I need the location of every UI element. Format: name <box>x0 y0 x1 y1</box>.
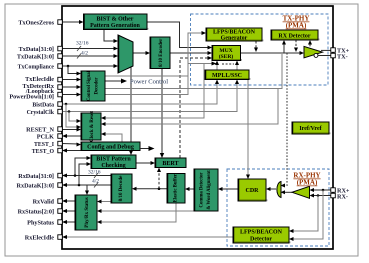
wire MPLL up to MUX SER in1 <box>215 61 219 71</box>
svg-text:Power Control: Power Control <box>130 79 168 86</box>
wire BIST checking to BERT <box>136 161 155 165</box>
wire comma det to elastic buffer <box>185 187 194 191</box>
port RX+ <box>331 188 336 193</box>
port TEST_O <box>58 148 63 153</box>
svg-text:RxDataK[3:0]: RxDataK[3:0] <box>17 182 54 189</box>
wire TxDataK to mux <box>62 54 118 58</box>
wire mux out to encoder <box>133 51 150 55</box>
block BERT <box>155 158 186 168</box>
svg-text:Decoder: Decoder <box>95 77 100 95</box>
wire TX line up to RX detector <box>282 40 286 53</box>
block LFPS/BEACON Detector <box>233 227 291 243</box>
RX amplifier triangle <box>292 186 310 198</box>
block 8/10 Decode <box>111 174 132 203</box>
wire TxCompliance to mux <box>62 64 118 68</box>
wire BIST out to MUX(SER) <box>147 22 212 50</box>
wire dashed LFPS gen down <box>254 41 258 52</box>
wire elastic buffer down to status <box>97 203 176 224</box>
PHY main box <box>62 6 333 249</box>
port RX- <box>331 193 336 198</box>
wire CrystalClk long to MPLL <box>62 80 239 113</box>
wire decoder out y88 long <box>105 54 282 89</box>
wire driver top to RX detector <box>308 40 312 46</box>
block BIST Pattern Checking <box>91 155 136 169</box>
svg-text:Clock & Reset: Clock & Reset <box>90 111 95 142</box>
svg-text:TxOnesZeros: TxOnesZeros <box>18 19 54 26</box>
wire RxDataK out <box>62 183 111 187</box>
port RxData <box>58 173 63 178</box>
svg-text:Iref/Vref: Iref/Vref <box>299 126 322 132</box>
svg-text:Comma Detector: Comma Detector <box>200 172 205 208</box>
wire encoder tap down to BERT <box>160 69 164 159</box>
svg-text:BERT: BERT <box>162 161 178 167</box>
wire RxDataK branch down to status <box>85 185 89 195</box>
port TxElecIdle <box>58 77 63 82</box>
wire clockreset right feedback 1 <box>101 64 204 121</box>
svg-text:RX Detector: RX Detector <box>278 33 310 39</box>
port TxDataK <box>58 54 63 59</box>
block MUX (SER) <box>212 46 242 61</box>
wire TxCompliance branch to decoder <box>68 66 81 76</box>
svg-text:4/2: 4/2 <box>81 51 88 57</box>
wire decoder out y76 <box>105 75 188 77</box>
svg-text:& Word Alignment: & Word Alignment <box>207 170 212 210</box>
port CrystalClk <box>58 109 63 114</box>
block LFPS/BEACON Generator <box>206 28 264 42</box>
wire PhyStatus out <box>62 220 75 224</box>
svg-text:Phy/Rx Status: Phy/Rx Status <box>85 197 90 227</box>
port TxData <box>58 46 63 51</box>
svg-text:CDR: CDR <box>246 188 260 194</box>
block 8/10 Encoder <box>150 37 170 69</box>
TX-PHY title <box>283 15 310 30</box>
svg-text:(PMA): (PMA) <box>286 22 307 30</box>
svg-text:TxDataK[3:0]: TxDataK[3:0] <box>17 53 54 60</box>
wire dashed BERT to MUX SER <box>180 56 212 158</box>
wire comma det down to status <box>97 209 204 213</box>
port RESET_N <box>58 127 63 132</box>
wire RX- down to LFPS detector <box>289 196 318 234</box>
svg-text:8/10 Encoder: 8/10 Encoder <box>159 38 164 67</box>
wire decoder out y94.5 to LFPS gen <box>105 31 206 95</box>
RX-PHY title <box>293 172 320 187</box>
wire CDR to comma detector <box>218 187 238 191</box>
wire BistData long to MPLL <box>62 80 219 106</box>
port RxValid <box>58 199 63 204</box>
block MPLL/SSC <box>205 70 251 80</box>
block Config and Debug <box>81 142 140 151</box>
svg-text:32/16: 32/16 <box>88 170 101 176</box>
svg-text:RxData[31:0]: RxData[31:0] <box>18 173 54 180</box>
svg-text:RESET_N: RESET_N <box>26 126 54 133</box>
svg-text:LFPS/BEACON: LFPS/BEACON <box>240 230 283 236</box>
wire RxDataK tap to BIST checking <box>79 162 91 185</box>
wire dotted serial loopback <box>281 53 288 188</box>
svg-text:Detector: Detector <box>250 236 272 242</box>
svg-text:MUX: MUX <box>219 48 232 54</box>
svg-text:CrystalClk: CrystalClk <box>27 110 55 116</box>
svg-text:TEST_O: TEST_O <box>32 149 55 155</box>
right pin labels <box>337 47 350 200</box>
svg-text:RxElecIdle: RxElecIdle <box>25 234 54 241</box>
svg-text:TEST_I: TEST_I <box>34 142 55 148</box>
svg-text:RxStatus[2:0]: RxStatus[2:0] <box>18 208 54 215</box>
wire CrystalClk branch to clock reset <box>69 112 81 124</box>
wire decode out to status <box>97 200 111 204</box>
rx input mux <box>277 182 281 198</box>
left ports <box>58 20 336 240</box>
port TX+ <box>331 48 336 53</box>
svg-text:Generator: Generator <box>221 36 248 42</box>
wire RxData out <box>62 174 111 178</box>
wire TxOnesZeros to BIST <box>62 20 84 24</box>
svg-text:Control Signal: Control Signal <box>87 70 92 101</box>
thick left edges of blocks <box>75 14 292 243</box>
port TxOnesZeros <box>58 20 63 25</box>
svg-text:RX-: RX- <box>337 193 348 200</box>
wire RX triangle out to rx mux <box>281 190 293 194</box>
wire TX+ out <box>321 49 331 51</box>
wire elastic buffer to decoder <box>132 187 167 191</box>
wire RxValid out <box>62 199 75 203</box>
TX data mux trapezoid <box>118 35 133 73</box>
svg-text:32/16: 32/16 <box>76 41 89 47</box>
wire RX+ in <box>310 188 332 192</box>
wire rx mux out to CDR <box>266 187 276 191</box>
block Phy/Rx Status <box>75 195 97 230</box>
wire MPLL down to CDR <box>246 80 250 180</box>
port TxDetectRx <box>58 85 63 90</box>
wire MUX SER out to TX driver <box>241 51 305 55</box>
port RxElecIdle <box>58 235 63 240</box>
port TxCompliance <box>58 64 63 69</box>
port BistData <box>58 102 63 107</box>
wire TxDetectRx/Loopback to decoder <box>62 85 81 89</box>
port RxDataK <box>58 183 63 188</box>
TX driver triangle <box>304 46 323 57</box>
svg-text:TxCompliance: TxCompliance <box>18 64 55 70</box>
svg-text:Checking: Checking <box>101 163 125 169</box>
left pin labels <box>9 19 55 241</box>
svg-text:(SER): (SER) <box>219 53 234 60</box>
port PowerDown <box>58 92 63 97</box>
wire TxData to mux <box>62 47 118 51</box>
svg-text:BistData: BistData <box>32 103 54 109</box>
wire encoder out to MUX SER <box>170 51 212 55</box>
svg-text:Pattern Generation: Pattern Generation <box>90 23 140 29</box>
port PhyStatus <box>58 220 63 225</box>
svg-text:BIST Pattern: BIST Pattern <box>96 157 131 163</box>
wire RX+ down to LFPS detector <box>289 190 323 241</box>
wire decoder out power control <box>105 79 127 84</box>
block Control Signal Decoder <box>81 70 105 101</box>
svg-text:MPLL/SSC: MPLL/SSC <box>212 73 242 79</box>
svg-text:Config and Debug: Config and Debug <box>87 145 134 151</box>
wire MPLL up to MUX SER in2 <box>235 61 239 71</box>
wire dashed RX detector pulse to line <box>294 40 298 52</box>
wire BIST bottom to TX mux in1 <box>104 30 118 44</box>
TX-PHY (PMA) dashed region <box>191 14 329 85</box>
wire BistData branch to clock reset <box>66 104 81 129</box>
port PCLK <box>58 134 63 139</box>
wire RxStatus out <box>62 209 75 213</box>
wire mux tap down to BIST checking <box>129 67 133 155</box>
svg-text:TxData[31:0]: TxData[31:0] <box>19 46 54 53</box>
wire TEST_O out <box>62 149 81 153</box>
wire TEST_I in <box>62 143 81 147</box>
wire RX- in <box>310 194 332 198</box>
wire RESET_N to clock reset <box>62 128 81 132</box>
svg-text:Elastic Buffer: Elastic Buffer <box>174 173 179 202</box>
wire config out right arrow <box>140 146 155 151</box>
block Elastic Buffer <box>167 173 185 203</box>
block Iref/Vref <box>292 122 331 134</box>
wire branch y63.5 arrow <box>188 62 234 66</box>
svg-text:TX-: TX- <box>337 53 348 60</box>
wire TxElecIdle to decoder <box>62 78 81 82</box>
svg-text:4/2: 4/2 <box>92 179 99 185</box>
svg-text:8/10 Decode: 8/10 Decode <box>119 175 124 201</box>
block RX Detector <box>271 30 320 40</box>
wire PowerDown to decoder <box>62 93 81 97</box>
port TX- <box>331 53 336 58</box>
block Comma Detector & Word Alignment <box>194 169 218 211</box>
block BIST & Other Pattern Generation <box>84 14 149 30</box>
svg-text:PowerDown[1:0]: PowerDown[1:0] <box>9 93 54 100</box>
wire TX- out <box>318 55 331 57</box>
svg-text:(PMA): (PMA) <box>297 179 318 187</box>
wire config top to clockreset <box>101 132 122 142</box>
wire clockreset right feedback 2 <box>101 89 278 127</box>
RX-PHY (PMA) dashed region <box>227 169 329 246</box>
port TEST_I <box>58 141 63 146</box>
svg-text:PCLK: PCLK <box>37 133 54 140</box>
wire RxData tap to BIST checking <box>75 156 91 176</box>
wire dashed BERT rx tap <box>157 168 161 189</box>
svg-text:PhyStatus: PhyStatus <box>27 219 54 226</box>
wire RxElecIdle from LFPS detector <box>62 235 233 239</box>
svg-text:RxValid: RxValid <box>33 198 55 205</box>
block CDR <box>238 179 268 201</box>
svg-text:BIST & Other: BIST & Other <box>97 17 134 23</box>
block Clock & Reset <box>81 111 101 142</box>
port RxStatus <box>58 209 63 214</box>
wire PCLK out <box>62 134 81 138</box>
